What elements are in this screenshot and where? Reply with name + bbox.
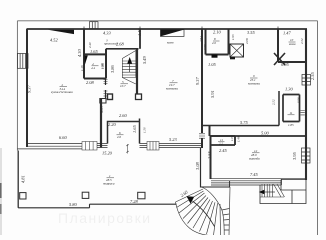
- svg-text:2.6: 2.6: [117, 135, 121, 139]
- svg-text:15.20: 15.20: [102, 151, 113, 156]
- room 8 (wc) walls: [206, 29, 229, 55]
- svg-text:2.55: 2.55: [207, 151, 212, 159]
- svg-text:2.08: 2.08: [245, 38, 249, 44]
- window right wall upper: [302, 75, 311, 86]
- outer wall right: [305, 29, 307, 163]
- svg-text:4.33: 4.33: [103, 31, 111, 36]
- svg-text:веранда: веранда: [249, 157, 260, 161]
- right wall lower segment: [305, 163, 307, 180]
- svg-text:1.65: 1.65: [90, 49, 98, 54]
- svg-text:0.96: 0.96: [297, 97, 301, 103]
- terrace pillar 2: [138, 192, 145, 199]
- outer wall left upper: [26, 29, 28, 147]
- terrace band window 1: [82, 142, 97, 151]
- svg-text:4.4: 4.4: [91, 66, 95, 70]
- room10 door X symbol: [274, 53, 285, 65]
- svg-text:1.85: 1.85: [288, 123, 294, 127]
- room 4 (wc) box: [84, 49, 106, 79]
- curved stair arrow: [193, 201, 215, 227]
- svg-text:3.55: 3.55: [247, 30, 255, 35]
- svg-text:11: 11: [290, 111, 293, 115]
- svg-text:2.10: 2.10: [213, 30, 221, 35]
- svg-text:1.47: 1.47: [283, 31, 291, 36]
- svg-text:0.99: 0.99: [203, 44, 207, 50]
- terrace band right (3 lines) to wall A: [159, 144, 201, 148]
- room 10 walls: [278, 29, 306, 62]
- room7 west wall upper: [139, 29, 141, 49]
- svg-text:2.55: 2.55: [310, 72, 315, 80]
- terrace pillar 1: [82, 192, 89, 198]
- door ticks lower: [105, 90, 107, 99]
- room label underlines: [60, 41, 296, 178]
- black wall end block: [108, 94, 113, 100]
- svg-text:1.86: 1.86: [101, 63, 105, 69]
- room7 balcony door black wedge: [161, 30, 185, 37]
- junction ticks top wall: [84, 27, 278, 32]
- svg-text:2.08: 2.08: [86, 80, 94, 85]
- svg-text:7.28: 7.28: [130, 199, 138, 204]
- svg-text:кухня-Гостиная: кухня-Гостиная: [51, 90, 73, 94]
- svg-text:2.45: 2.45: [219, 148, 227, 153]
- wall between room7 and room9 (x=202): [201, 29, 203, 133]
- svg-text:2.20: 2.20: [108, 122, 116, 127]
- svg-text:3.95: 3.95: [292, 152, 297, 160]
- wall from band to curved stair: [200, 148, 202, 188]
- svg-text:2.52: 2.52: [300, 38, 304, 44]
- bottom wall terrace right: [90, 203, 177, 205]
- corridor: room12 north wall: [211, 135, 307, 137]
- band segment right of room6: [140, 144, 148, 148]
- svg-text:10.7: 10.7: [120, 84, 126, 88]
- svg-text:1.16: 1.16: [80, 65, 84, 71]
- svg-text:0.95: 0.95: [281, 62, 289, 67]
- svg-text:3.08: 3.08: [195, 162, 200, 170]
- svg-text:4.30: 4.30: [77, 49, 82, 57]
- room 11 box: [211, 136, 236, 145]
- room12 south band (verandah wall 4 lines): [211, 179, 306, 185]
- svg-text:2.60: 2.60: [119, 113, 127, 118]
- svg-text:2.2: 2.2: [219, 142, 223, 146]
- svg-text:6.60: 6.60: [59, 135, 67, 140]
- staircase treads: [122, 51, 136, 85]
- svg-text:терраса: терраса: [103, 182, 115, 186]
- room 6 (wc) bottom box: [108, 119, 140, 144]
- outer boundary left: [16, 21, 18, 151]
- door ticks on wall x202: [199, 134, 205, 138]
- svg-text:1.95: 1.95: [231, 34, 235, 40]
- svg-text:5.91: 5.91: [210, 90, 215, 98]
- svg-text:4.52: 4.52: [50, 37, 58, 42]
- svg-text:2.84: 2.84: [199, 36, 203, 42]
- svg-text:1.48: 1.48: [237, 136, 241, 142]
- window left wall: [17, 54, 28, 69]
- svg-text:2.0: 2.0: [212, 41, 216, 45]
- svg-text:5.75: 5.75: [240, 120, 248, 125]
- room 9 south wall: [202, 125, 279, 127]
- svg-text:комната: комната: [248, 82, 260, 86]
- svg-text:1.30: 1.30: [285, 87, 293, 92]
- svg-text:1.50: 1.50: [143, 127, 147, 133]
- band segment: [97, 144, 108, 148]
- svg-text:2.52: 2.52: [272, 99, 276, 105]
- wall between kitchen and hall (x=84): [83, 29, 85, 79]
- svg-text:9.37: 9.37: [195, 77, 200, 85]
- svg-text:7.45: 7.45: [250, 172, 258, 177]
- hall west wall (x=101): [100, 99, 102, 148]
- dimension texts: [21, 28, 316, 207]
- svg-text:4.81: 4.81: [21, 175, 26, 183]
- pillar bump left wall: [20, 193, 26, 199]
- svg-text:5.23: 5.23: [169, 137, 177, 142]
- terrace west wall: [17, 151, 19, 208]
- staircase upper: right wall: [136, 49, 138, 94]
- outer wall top: [27, 28, 308, 30]
- wall stub right of room4 with door ticks: [105, 79, 107, 86]
- kitchen balcony door black wedge: [48, 30, 74, 34]
- bottom right corner box: [281, 180, 306, 191]
- stair wall end square: [136, 94, 142, 100]
- room8 door black: [212, 55, 218, 58]
- terrace band left (3 lines) from left wall to window: [17, 144, 82, 149]
- svg-text:Планировки: Планировки: [58, 210, 152, 226]
- stair arrow up: [129, 63, 131, 72]
- dim extension line: [126, 144, 129, 154]
- svg-text:1.05: 1.05: [208, 62, 216, 67]
- window right wall lower: [302, 148, 311, 163]
- room12 west wall: [210, 126, 211, 180]
- chimney box on frame top: [90, 22, 99, 29]
- outer boundary top: [17, 20, 317, 22]
- svg-text:3.86: 3.86: [110, 65, 115, 73]
- bottom wall step: [89, 204, 91, 208]
- terrace band window 2: [147, 142, 159, 151]
- room3 hallway south wall: [106, 48, 139, 50]
- bottom right stair arrow left: [262, 191, 275, 193]
- svg-text:5.49: 5.49: [142, 56, 147, 64]
- outer boundary right: [317, 21, 319, 235]
- svg-text:комн: комн: [289, 42, 296, 46]
- hall west wall top bump: [100, 99, 106, 104]
- svg-text:5.00: 5.00: [261, 131, 269, 136]
- bottom right stair treads: [260, 184, 285, 197]
- svg-text:1.05: 1.05: [230, 135, 234, 141]
- svg-text:2.40: 2.40: [88, 42, 92, 48]
- curved staircase fan: [176, 181, 231, 236]
- svg-text:9.37: 9.37: [27, 85, 32, 93]
- bottom right staircase enclosure: [260, 185, 306, 204]
- closet room right (11a): [278, 91, 280, 126]
- svg-text:5.07: 5.07: [99, 105, 104, 113]
- scan edge artifacts left: [0, 148, 2, 235]
- svg-text:1.40: 1.40: [137, 28, 142, 36]
- door leaf black wedge room4: [85, 56, 88, 66]
- svg-text:комната: комната: [166, 87, 178, 91]
- svg-text:комн: комн: [167, 40, 174, 44]
- shower door black: [230, 57, 235, 60]
- bottom wall terrace left: [18, 207, 89, 209]
- svg-text:5.80: 5.80: [69, 202, 77, 207]
- svg-text:1.65: 1.65: [132, 125, 137, 133]
- shower box: [230, 44, 244, 57]
